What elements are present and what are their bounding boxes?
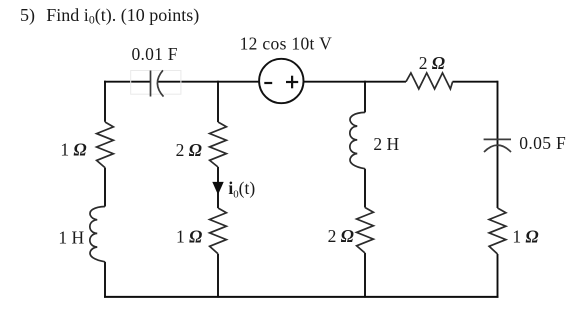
svg-text:12 cos 10t V: 12 cos 10t V — [240, 34, 333, 54]
left branch wires — [104, 81, 106, 122]
inductor L1 1H — [90, 207, 105, 262]
svg-text:2 Ω: 2 Ω — [419, 53, 445, 73]
svg-text:Find i0(t). (10 points): Find i0(t). (10 points) — [46, 5, 199, 27]
capacitor C1 0.01 F curved plate — [157, 70, 163, 96]
resistor R5 1ohm right — [489, 208, 506, 254]
inductor L2 2H — [350, 112, 365, 168]
faint box around capacitor C1 — [131, 71, 181, 95]
resistor R2 2ohm branch2 — [210, 122, 227, 167]
svg-text:0.01 F: 0.01 F — [132, 44, 178, 64]
capacitor C2 0.05F curved plate — [484, 145, 511, 152]
plus sign — [286, 81, 298, 83]
svg-text:i0(t): i0(t) — [228, 178, 255, 201]
branch2 wires — [217, 81, 219, 122]
resistor R top 2ohm horizontal — [406, 73, 453, 89]
wire bottom rail — [104, 296, 499, 298]
svg-text:2 Ω: 2 Ω — [328, 226, 354, 246]
svg-text:1 Ω: 1 Ω — [60, 140, 86, 160]
svg-text:2 H: 2 H — [373, 134, 399, 154]
capacitor C2 0.05F flat plate — [484, 138, 511, 140]
svg-text:1 Ω: 1 Ω — [512, 226, 538, 246]
minus sign — [264, 82, 272, 84]
voltage source U1 circle — [259, 59, 303, 103]
right branch wires — [497, 81, 499, 208]
resistor R3 1ohm branch2 — [210, 208, 227, 254]
svg-text:5): 5) — [20, 5, 35, 26]
svg-text:1 Ω: 1 Ω — [176, 227, 202, 247]
wire resistor to top-right corner — [453, 81, 498, 83]
arrow i0(t) — [212, 182, 223, 195]
resistor R4 2ohm branch3 — [357, 208, 374, 254]
resistor R1 1ohm left — [97, 122, 114, 168]
wire capacitor to source (through node at x=218) — [158, 81, 260, 83]
svg-text:2 Ω: 2 Ω — [176, 140, 202, 160]
branch3 wires — [364, 81, 366, 113]
wire top-left horizontal — [104, 81, 151, 83]
capacitor C1 0.01 F left plate — [150, 71, 152, 97]
svg-text:0.05 F: 0.05 F — [519, 133, 566, 153]
svg-text:1 H: 1 H — [58, 227, 84, 247]
wire source to resistor (through node at x=365) — [303, 81, 406, 83]
